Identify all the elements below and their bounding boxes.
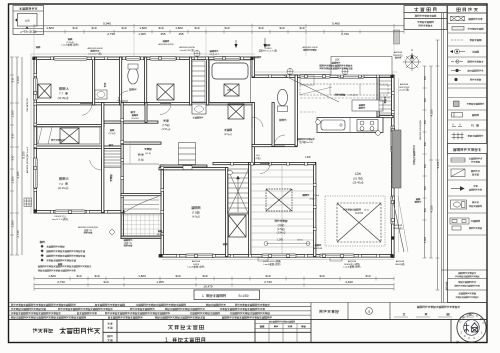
hall closet (228, 104, 244, 119)
svg-text:B: B (66, 177, 68, 181)
legend row: door slide arrow (451, 187, 464, 191)
svg-text:AW2069: AW2069 (314, 247, 323, 250)
svg-text:S=1/50: S=1/50 (238, 294, 248, 298)
windows bottom wall (186, 254, 214, 258)
door: toilet2 (274, 135, 285, 146)
svg-text:7.7: 7.7 (59, 92, 63, 96)
svg-text:16,470: 16,470 (203, 285, 213, 289)
svg-text:910: 910 (424, 97, 427, 102)
legend row: local fan (451, 70, 461, 72)
svg-text:N: N (411, 48, 413, 52)
svg-text:910: 910 (11, 77, 15, 82)
svg-text:(4.9㎡): (4.9㎡) (192, 215, 200, 219)
svg-text:910: 910 (424, 119, 427, 124)
title block (9, 320, 488, 343)
svg-text:4,550: 4,550 (430, 205, 434, 212)
svg-text:AW2069: AW2069 (394, 51, 403, 54)
svg-text:9,100: 9,100 (436, 161, 440, 168)
door: yoshitsuA (82, 104, 92, 116)
small fan/vent symbols on walls (194, 51, 200, 57)
svg-text:1,820: 1,820 (46, 26, 54, 30)
svg-text:910: 910 (194, 26, 199, 30)
legend row: fan symbol (450, 50, 453, 53)
svg-text:16920: 16920 (193, 264, 200, 266)
svg-text:910: 910 (175, 274, 180, 278)
extension lines from walls to dims (34, 27, 394, 56)
stairs (main, vertical) (228, 169, 249, 214)
genkan south wall (121, 194, 161, 196)
porch steps (122, 200, 162, 214)
closet band (37, 127, 100, 144)
vent rect living top wall (183, 166, 192, 170)
genkan floor border (122, 163, 159, 165)
svg-text:1,820: 1,820 (138, 274, 146, 278)
laundry shelf ladder (192, 61, 205, 102)
kitchen back counter (352, 100, 383, 111)
legend bullet list (bottom left) (38, 241, 91, 271)
bottom dimension lines (34, 278, 394, 280)
svg-text:1,365: 1,365 (11, 110, 15, 117)
svg-text:910: 910 (76, 274, 81, 278)
svg-text:910: 910 (424, 207, 427, 212)
toilet 2 (278, 89, 288, 105)
washitsu tokonoma dashed (266, 189, 292, 211)
right dimension lines (424, 66, 426, 258)
svg-text:1,820: 1,820 (11, 176, 15, 183)
svg-text:(洋室): (洋室) (278, 223, 285, 227)
svg-text:2,730: 2,730 (264, 280, 272, 284)
right column lower note rows (441, 13, 487, 303)
svg-text:—1: —1 (462, 340, 467, 344)
svg-text:LDK: LDK (335, 58, 340, 61)
kitchen counter island (317, 118, 383, 133)
UB stock (224, 84, 239, 96)
svg-text:7.2: 7.2 (59, 182, 63, 186)
svg-text:2,100: 2,100 (16, 76, 20, 83)
pantry shelves (379, 77, 392, 115)
svg-text:AW4069 16011(3)W Low-E: AW4069 16011(3)W Low-E (26, 146, 29, 173)
svg-text:(3 帖): (3 帖) (138, 157, 144, 161)
svg-text:2,730: 2,730 (341, 32, 349, 36)
windows top wall right (300, 74, 330, 78)
window top wall A (54, 56, 87, 60)
washitsu interior dim w/ lamp circles (266, 243, 310, 245)
legend row: 24h fan (451, 61, 463, 63)
svg-text:910: 910 (265, 274, 270, 278)
svg-text:(7.5帖): (7.5帖) (192, 211, 200, 215)
bottom notes band (9, 303, 488, 320)
svg-text:1,820: 1,820 (48, 274, 56, 278)
svg-text:5,460: 5,460 (332, 21, 340, 25)
svg-text:1,365: 1,365 (138, 32, 146, 36)
svg-text:910: 910 (299, 26, 304, 30)
svg-text:LDK: LDK (355, 172, 362, 176)
svg-text:910: 910 (202, 274, 207, 278)
svg-text:S=2700: S=2700 (355, 213, 364, 215)
svg-text:1,820: 1,820 (175, 26, 183, 30)
svg-text:8,190: 8,190 (22, 151, 26, 158)
door: hall-ldk (252, 117, 263, 127)
top-left title/scale box (13, 6, 44, 35)
compass (north arrow) (403, 53, 421, 71)
stove (357, 120, 378, 132)
svg-text:455: 455 (178, 32, 183, 36)
interior walls (34, 103, 254, 105)
structural posts along walls (33, 57, 36, 60)
svg-text:(7.5帖): (7.5帖) (162, 123, 170, 127)
svg-text:(4.5帖): (4.5帖) (277, 227, 285, 231)
svg-text:(12.39㎡): (12.39㎡) (58, 96, 69, 100)
svg-text:SIC: SIC (256, 155, 260, 157)
svg-text:910: 910 (224, 26, 229, 30)
legend row: flooring direction (451, 158, 465, 162)
leader diagonal to note box (284, 76, 339, 103)
legend row: toilet symbol (451, 200, 467, 209)
arrows above top wall (234, 44, 237, 48)
svg-text:AW2069 0607A: AW2069 0607A (179, 46, 195, 49)
windows left wall (33, 78, 37, 100)
washbasin room1 (95, 90, 107, 99)
svg-text:AW2669 16920(3)W: AW2669 16920(3)W (78, 226, 99, 229)
window/sash annotation text blobs (68, 38, 72, 40)
scale label box 1F plan S=1/50 (194, 290, 260, 300)
svg-text:5,940: 5,940 (103, 21, 111, 25)
eaves / overhang outline (light) (31, 54, 399, 260)
svg-text:1,820: 1,820 (424, 236, 427, 243)
svg-text:(3.94㎡): (3.94㎡) (277, 231, 286, 235)
small circled marks (228, 170, 233, 175)
svg-text:AW2069: AW2069 (348, 260, 357, 263)
bathtub (212, 63, 248, 79)
svg-text:910: 910 (94, 274, 99, 278)
svg-text:1,820: 1,820 (139, 26, 147, 30)
svg-text:(11.91㎡): (11.91㎡) (58, 186, 69, 190)
exterior walls (34, 57, 254, 60)
svg-text:1: 1 (165, 338, 168, 344)
extra annotations (132, 114, 138, 116)
top dimension lines (34, 25, 404, 27)
legend row: vent up/down (452, 133, 464, 140)
svg-text:910: 910 (91, 26, 96, 30)
big sloped-ceiling unit dashed (325, 196, 385, 246)
door: washroom (160, 104, 171, 115)
svg-text:910: 910 (424, 75, 427, 80)
svg-text:455: 455 (160, 32, 165, 36)
legend header 2: standard dims (448, 144, 488, 154)
svg-text:1,820: 1,820 (11, 220, 15, 227)
svg-text:910: 910 (424, 141, 427, 146)
svg-text:16011(3)W: 16011(3)W (399, 87, 411, 89)
understairs closet (229, 215, 247, 237)
left dimension lines (11, 57, 13, 255)
legend row: dashed lower wall (451, 39, 464, 41)
window right wall (391, 126, 395, 152)
svg-text:910: 910 (72, 26, 77, 30)
annotation box (LDK notes) (331, 57, 392, 76)
svg-text:AW2069 06009: AW2069 06009 (88, 47, 104, 50)
door: washitsu (260, 164, 270, 174)
kitchen upper cabinets dashed (300, 84, 388, 95)
svg-text:910: 910 (258, 26, 263, 30)
svg-text:910: 910 (279, 26, 284, 30)
svg-text:LDK: LDK (305, 155, 311, 159)
svg-text:W=750: W=750 (132, 118, 140, 120)
legend row: air inlet (454, 78, 457, 81)
svg-text:910: 910 (11, 155, 15, 160)
approval band: zenzumen shonin (311, 303, 390, 320)
inspection stamp (457, 313, 486, 342)
svg-text:(25.40㎡): (25.40㎡) (353, 181, 364, 185)
svg-text:位置: 位置 (25, 18, 30, 22)
svg-text:910: 910 (319, 274, 324, 278)
air vent grid box (left) (24, 198, 32, 207)
svg-text:2,730: 2,730 (107, 32, 115, 36)
legend row: security device (454, 101, 460, 107)
svg-text:(2.4㎡): (2.4㎡) (224, 132, 232, 136)
svg-text:1,365: 1,365 (277, 239, 284, 242)
svg-text:(4.97㎡): (4.97㎡) (162, 127, 171, 131)
svg-text:H=180: H=180 (157, 234, 164, 236)
zumen hanrei (legend) column (448, 6, 488, 303)
door: yoshitsuB (90, 160, 102, 170)
tatami lines washitsu (251, 165, 313, 254)
svg-text:910: 910 (11, 133, 15, 138)
hall label (145, 148, 152, 150)
svg-text:4,550: 4,550 (430, 109, 434, 116)
svg-text:2,730: 2,730 (57, 280, 65, 284)
svg-text:AW4069: AW4069 (400, 83, 409, 86)
stairs (upper small, hall) (104, 149, 121, 168)
svg-text:AW2069 16509: AW2069 16509 (303, 46, 319, 49)
door: toilet1 (118, 91, 128, 101)
svg-text:910: 910 (158, 26, 163, 30)
svg-text:(16.7帖): (16.7帖) (353, 176, 363, 180)
legend row: shelf (452, 113, 463, 118)
closet in room A (38, 84, 51, 98)
entrance door swing curve (123, 197, 159, 214)
legend row: sliding door symbol (452, 27, 464, 31)
diagonal brace line (392, 196, 404, 252)
svg-text:(11.9): (11.9) (145, 153, 151, 155)
svg-text:910: 910 (424, 185, 427, 190)
window yoshitsuB bottom (55, 210, 85, 214)
svg-text:910: 910 (103, 280, 108, 284)
svg-text:PS: PS (471, 124, 475, 127)
svg-text:CH=2200: CH=2200 (349, 95, 359, 97)
svg-text:AW2069: AW2069 (394, 224, 403, 227)
svg-text:AW2069: AW2069 (396, 260, 405, 263)
svg-text:(4.5): (4.5) (364, 210, 369, 212)
room labels (60, 88, 65, 90)
svg-text:910: 910 (424, 163, 427, 168)
legend row: kitchen symbol (450, 218, 469, 230)
toilet 1 (128, 68, 138, 84)
svg-text:1: 1 (202, 294, 204, 298)
svg-text:UB: UB (227, 88, 231, 92)
legend row: sloped ceiling (451, 169, 465, 177)
svg-text:1,365: 1,365 (156, 280, 164, 284)
legend row: double X window symbol (451, 16, 465, 21)
SIC shoe closet (179, 143, 196, 165)
svg-text:910: 910 (365, 274, 370, 278)
svg-text:3,185: 3,185 (16, 171, 20, 178)
wood deck hatched strip (right) (392, 130, 401, 188)
svg-text:607.5: 607.5 (297, 240, 303, 242)
tokki jiko table (special notes) (404, 6, 447, 30)
monoire (hall closet) label (131, 111, 135, 113)
svg-text:(2.4m): (2.4m) (313, 195, 320, 197)
svg-text:2,730: 2,730 (16, 230, 20, 237)
legend row: PS (452, 124, 462, 127)
small step rects below bottom wall (258, 258, 268, 262)
svg-text:3,640: 3,640 (345, 280, 353, 284)
svg-text:AW2069 06509: AW2069 06509 (159, 43, 175, 46)
svg-text:AW2669: AW2669 (192, 260, 201, 263)
svg-text:W1650: W1650 (265, 48, 273, 50)
svg-text:910: 910 (121, 26, 126, 30)
washroom closet (157, 84, 174, 100)
svg-text:YKK APW330: YKK APW330 (26, 97, 29, 111)
svg-text:AW2069 16011(3)W: AW2069 16011(3)W (419, 119, 422, 140)
washbasin vanity (192, 104, 206, 114)
